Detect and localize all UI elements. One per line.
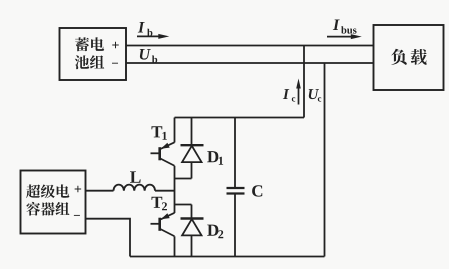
label U_c xyxy=(309,89,322,101)
wire: supercap - terminal to bottom rail xyxy=(86,219,130,257)
wire: T2 emitter to bottom rail xyxy=(174,236,176,256)
battery box 蓄电池组 xyxy=(60,28,127,80)
label I_c with up arrow xyxy=(283,79,301,105)
wire: top bus tap down to converter top rail xyxy=(303,46,305,118)
label C xyxy=(252,185,262,196)
wire: converter bottom rail xyxy=(130,256,325,258)
wire: T1 collector to top rail xyxy=(174,118,176,143)
transistor T2 xyxy=(151,213,175,237)
label T1 xyxy=(151,126,166,140)
diode D1 xyxy=(175,118,204,179)
label U_b xyxy=(140,49,157,63)
label I_b with arrow xyxy=(137,22,169,39)
diode D2 xyxy=(175,205,204,257)
supercapacitor box 超级电容器组 xyxy=(21,171,86,234)
label D2 xyxy=(207,225,223,239)
label D1 xyxy=(207,151,223,165)
wire: bottom bus tap down right side xyxy=(324,63,326,257)
label I_bus with arrow xyxy=(327,20,362,40)
wire: battery - to load (bottom bus) xyxy=(126,62,374,64)
wire: converter top rail xyxy=(175,117,305,119)
transistor T1 xyxy=(151,142,175,166)
label T2 xyxy=(151,197,167,211)
capacitor C xyxy=(227,118,245,257)
wire: battery + to load (top bus) xyxy=(126,45,374,47)
label L xyxy=(130,171,141,182)
load box 负载 xyxy=(374,25,444,90)
wire: midpoint vertical between T1 and T2 xyxy=(174,166,176,213)
inductor L xyxy=(86,185,175,191)
